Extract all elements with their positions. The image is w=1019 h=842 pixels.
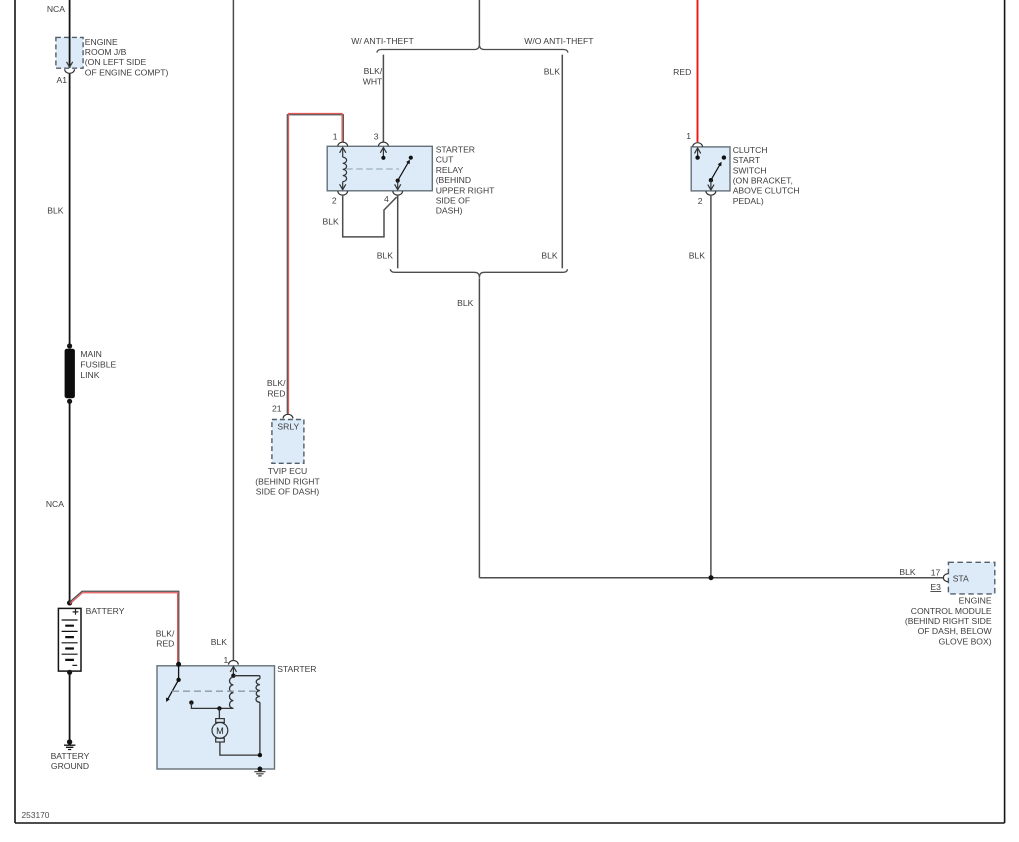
svg-text:SIDE OF DASH): SIDE OF DASH)	[256, 487, 320, 497]
svg-text:17: 17	[931, 567, 941, 577]
svg-text:BLK: BLK	[457, 298, 474, 308]
svg-text:SIDE OF: SIDE OF	[436, 196, 470, 206]
svg-text:1: 1	[686, 131, 691, 141]
svg-text:FUSIBLE: FUSIBLE	[80, 360, 116, 370]
svg-text:1: 1	[333, 131, 338, 141]
svg-text:ABOVE CLUTCH: ABOVE CLUTCH	[733, 186, 800, 196]
svg-text:1: 1	[224, 655, 229, 665]
svg-text:(BEHIND: (BEHIND	[436, 175, 471, 185]
svg-text:W/ ANTI-THEFT: W/ ANTI-THEFT	[351, 36, 414, 46]
svg-text:STARTER: STARTER	[277, 664, 316, 674]
svg-text:TVIP ECU: TVIP ECU	[268, 466, 307, 476]
svg-text:STARTER: STARTER	[436, 145, 475, 155]
svg-text:BLK: BLK	[47, 206, 64, 216]
svg-text:OF ENGINE COMPT): OF ENGINE COMPT)	[85, 67, 169, 77]
svg-text:BLK: BLK	[541, 250, 558, 260]
svg-text:DASH): DASH)	[436, 206, 463, 216]
svg-text:M: M	[216, 726, 224, 736]
svg-text:RED: RED	[267, 388, 285, 398]
svg-text:BLK/: BLK/	[156, 628, 175, 638]
svg-text:OF DASH, BELOW: OF DASH, BELOW	[918, 626, 993, 636]
svg-text:GROUND: GROUND	[51, 761, 89, 771]
svg-text:(ON LEFT SIDE: (ON LEFT SIDE	[85, 57, 147, 67]
svg-text:E3: E3	[930, 582, 941, 592]
svg-text:GLOVE BOX): GLOVE BOX)	[939, 636, 992, 646]
svg-text:NCA: NCA	[46, 499, 64, 509]
svg-text:CONTROL MODULE: CONTROL MODULE	[911, 606, 992, 616]
svg-text:BLK: BLK	[211, 637, 228, 647]
svg-text:WHT: WHT	[363, 76, 383, 86]
svg-text:(BEHIND RIGHT: (BEHIND RIGHT	[255, 476, 320, 486]
svg-text:RED: RED	[673, 67, 691, 77]
svg-text:UPPER RIGHT: UPPER RIGHT	[436, 185, 495, 195]
svg-text:BATTERY: BATTERY	[86, 606, 125, 616]
svg-text:BLK: BLK	[544, 66, 561, 76]
svg-text:(BEHIND RIGHT SIDE: (BEHIND RIGHT SIDE	[905, 616, 992, 626]
svg-text:SWITCH: SWITCH	[733, 165, 767, 175]
svg-text:4: 4	[384, 194, 389, 204]
svg-text:BLK: BLK	[689, 250, 706, 260]
svg-text:BLK: BLK	[377, 250, 394, 260]
svg-text:RELAY: RELAY	[436, 165, 464, 175]
svg-text:253170: 253170	[22, 810, 50, 820]
svg-text:BLK/: BLK/	[364, 66, 383, 76]
svg-text:2: 2	[332, 196, 337, 206]
svg-text:3: 3	[374, 131, 379, 141]
svg-text:(ON BRACKET,: (ON BRACKET,	[733, 176, 793, 186]
svg-text:LINK: LINK	[80, 370, 99, 380]
svg-text:STA: STA	[953, 574, 969, 584]
svg-text:MAIN: MAIN	[80, 349, 101, 359]
svg-text:CUT: CUT	[436, 155, 454, 165]
svg-text:CLUTCH: CLUTCH	[733, 145, 768, 155]
svg-text:ROOM J/B: ROOM J/B	[85, 47, 127, 57]
svg-text:21: 21	[272, 404, 282, 414]
svg-text:BLK: BLK	[899, 567, 916, 577]
svg-text:BATTERY: BATTERY	[51, 751, 90, 761]
svg-text:PEDAL): PEDAL)	[733, 196, 764, 206]
svg-text:ENGINE: ENGINE	[959, 596, 992, 606]
svg-text:A1: A1	[56, 75, 67, 85]
svg-text:ENGINE: ENGINE	[85, 37, 118, 47]
svg-text:START: START	[733, 155, 761, 165]
svg-text:NCA: NCA	[47, 4, 65, 14]
svg-text:2: 2	[698, 196, 703, 206]
svg-text:RED: RED	[156, 639, 174, 649]
svg-text:BLK: BLK	[323, 216, 340, 226]
svg-text:SRLY: SRLY	[277, 421, 299, 431]
svg-text:W/O ANTI-THEFT: W/O ANTI-THEFT	[524, 36, 594, 46]
svg-text:BLK/: BLK/	[267, 378, 286, 388]
